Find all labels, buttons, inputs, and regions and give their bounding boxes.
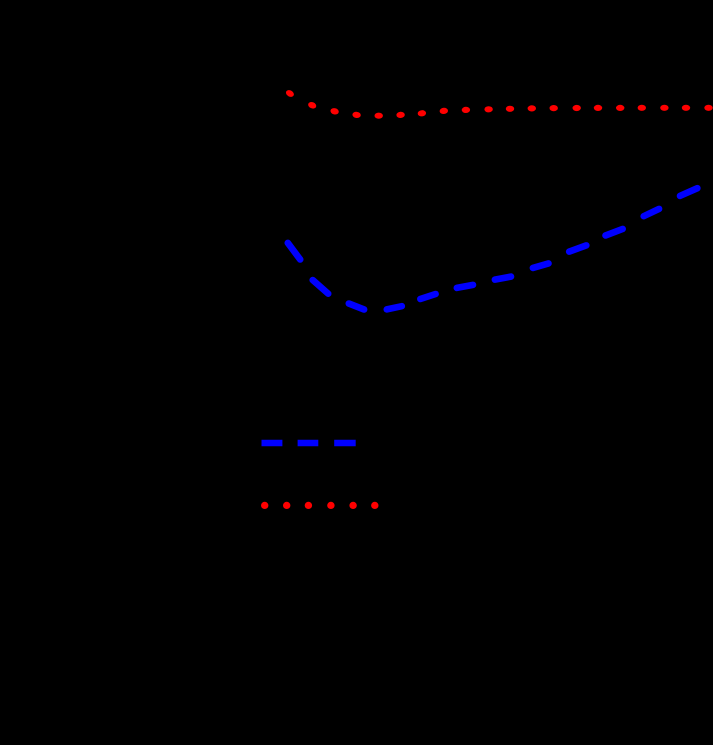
- legend sample: red dotted line: [261, 502, 378, 509]
- red dotted curve (series 2): [285, 89, 713, 119]
- legend sample: blue dashed line: [262, 440, 356, 446]
- blue dashed curve (series 1): [288, 188, 698, 309]
